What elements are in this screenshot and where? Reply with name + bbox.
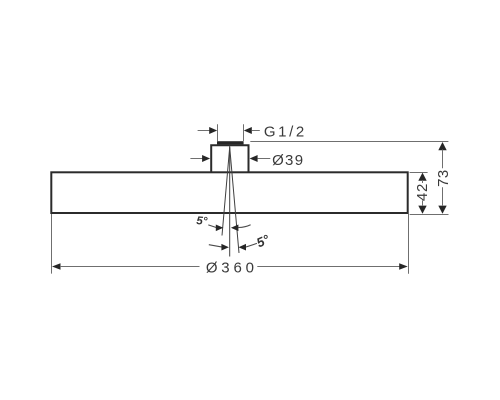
diameter 360 extension line right: [408, 214, 410, 274]
42 dimension line lower segment: [422, 200, 424, 205]
diameter 39 arrow left: [202, 155, 210, 162]
diameter 39 arrow right: [250, 155, 258, 162]
G1/2 arrow right: [244, 127, 252, 134]
diameter 360 extension line left: [51, 214, 53, 274]
svg-text:73: 73: [435, 169, 452, 187]
G1/2 leader right: [252, 130, 260, 132]
G1/2 extension line right: [243, 124, 245, 141]
spray right 5-degree line: [230, 147, 239, 253]
extension line top right (73 reference): [250, 141, 448, 143]
G1/2 leader left: [198, 130, 210, 132]
svg-text:G1/2: G1/2: [264, 124, 307, 141]
lower 5-degree leader left: [209, 245, 222, 247]
diameter 39 leader left: [190, 158, 202, 160]
lower 5-degree arrow left: [221, 244, 229, 251]
thread cap G1/2 (filled): [217, 141, 244, 144]
lower 5-degree leader right: [246, 243, 257, 247]
spray center line: [229, 146, 231, 257]
diameter 360 dimension line left segment: [60, 266, 200, 268]
diameter 39 leader right: [258, 158, 271, 160]
extension line middle right (42 reference): [410, 172, 428, 174]
42 arrow bottom: [418, 206, 426, 214]
upper 5-degree arrow left: [216, 225, 224, 232]
upper 5-degree leader right: [238, 225, 250, 228]
svg-text:Ø360: Ø360: [206, 260, 258, 277]
73 arrow top: [438, 142, 446, 150]
diameter 360 dimension line right segment: [257, 266, 399, 268]
svg-text:Ø39: Ø39: [272, 152, 304, 169]
G1/2 arrow left: [209, 127, 217, 134]
upper 5-degree arrow right: [231, 225, 239, 232]
73 dimension line lower segment: [442, 187, 444, 205]
extension line bottom right: [410, 214, 449, 216]
shower head body outline: [51, 172, 407, 213]
73 arrow bottom: [438, 206, 446, 214]
42 arrow top: [418, 173, 426, 181]
lower 5-degree arrow right: [239, 244, 247, 251]
svg-text:5°: 5°: [254, 231, 272, 250]
G1/2 extension line left: [217, 124, 219, 141]
diameter 360 arrow left: [52, 263, 61, 269]
42 dimension line upper segment: [422, 180, 424, 183]
spray left 5-degree line: [222, 147, 230, 235]
svg-text:5°: 5°: [196, 215, 208, 228]
73 dimension line upper segment: [442, 150, 444, 169]
svg-text:42: 42: [414, 183, 431, 201]
diameter 360 arrow right: [399, 263, 408, 269]
upper 5-degree leader left: [208, 225, 216, 228]
ceiling connector outline: [211, 145, 248, 172]
